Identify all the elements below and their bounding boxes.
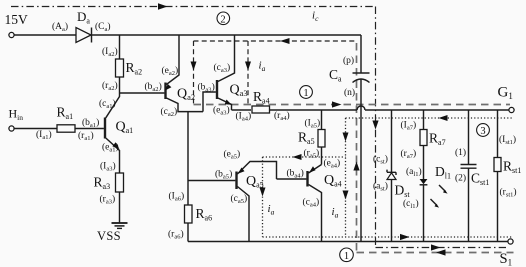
capacitor Ca xyxy=(353,35,370,242)
svg-text:(Aa): (Aa) xyxy=(52,21,68,33)
resistor Ra6 branch xyxy=(185,112,193,242)
terminal 15V input xyxy=(9,32,14,37)
circled number 2 xyxy=(217,12,230,25)
wire top rail left segment xyxy=(14,34,76,36)
resistor Ra7 and LED Dl1 branch xyxy=(420,110,428,242)
wire node Ra2/Qa1 collector to Qa2 base xyxy=(120,92,165,94)
loop 2 dash-dot right edge with down arrow xyxy=(372,7,378,248)
svg-text:1: 1 xyxy=(303,88,308,99)
ground VSS xyxy=(112,223,128,228)
circled number 1 bottom xyxy=(340,248,354,262)
resistor Ra1 xyxy=(57,125,75,132)
capacitor Cst1 branch xyxy=(461,110,477,242)
resistor Ra5 branch xyxy=(318,110,325,165)
diode Da xyxy=(76,28,92,43)
transistor Qa3 xyxy=(217,35,235,110)
loop ia dotted left edge with down arrow xyxy=(260,157,266,237)
terminal S1 xyxy=(508,239,513,244)
svg-text:3: 3 xyxy=(480,126,485,137)
transistor Qa2 xyxy=(165,35,203,112)
wire Ra1 to Qa1 base xyxy=(75,128,104,130)
loop 2 dash-dot bottom edge with right arrow xyxy=(376,244,507,250)
circled number 1 on gate wire xyxy=(300,86,313,99)
svg-text:(n): (n) xyxy=(344,87,355,98)
resistor Ra4 xyxy=(252,106,270,113)
dashed box left edge with down arrow xyxy=(191,41,197,105)
bottom source rail xyxy=(188,241,508,243)
svg-text:VSS: VSS xyxy=(97,229,121,243)
transistor Qa4 xyxy=(277,165,322,242)
svg-text:(Ca): (Ca) xyxy=(95,21,111,33)
svg-text:1: 1 xyxy=(344,251,349,262)
dashed divider edge with down arrow xyxy=(245,41,251,105)
loop 2 dash-dot top edge with right arrow and label ic xyxy=(11,3,376,9)
svg-text:15V: 15V xyxy=(5,12,29,27)
resistor Rst1 branch xyxy=(494,110,501,242)
loop ia dotted top edge with left arrow xyxy=(263,154,346,160)
svg-text:(p): (p) xyxy=(343,55,354,66)
svg-text:(2): (2) xyxy=(455,173,466,184)
loop 1 gray dashed top edge with right arrow xyxy=(194,101,511,107)
LED light emission arrows xyxy=(431,185,448,208)
zener diode Dst branch xyxy=(387,110,396,242)
loop 3 dotted left edge with two down arrows xyxy=(343,118,349,237)
resistor Ra2 xyxy=(116,35,124,93)
transistor Qa1 xyxy=(105,93,120,173)
wire Qa2 collector to Qa3 base xyxy=(203,92,216,112)
loop 1 gray dashed bottom edge with left arrow xyxy=(357,249,514,255)
dashed box top edge with left arrow xyxy=(194,38,358,44)
terminal G1 xyxy=(509,107,514,112)
wire Hin to Ra1 xyxy=(14,128,57,130)
wire top rail main segment xyxy=(92,34,362,36)
loop 1 gray dashed vertical edge with up arrow xyxy=(353,43,359,253)
loop 3 dotted top edge with left arrow xyxy=(346,115,514,121)
main gate wire with hop over Ca lead xyxy=(232,106,510,110)
circled number 3 xyxy=(477,124,490,137)
terminal Hin input xyxy=(9,126,14,131)
resistor Ra3 xyxy=(116,173,124,223)
transistor Qa5 xyxy=(188,162,277,242)
svg-text:2: 2 xyxy=(220,14,225,25)
dotted bottom edge with right arrow xyxy=(263,234,514,240)
svg-text:(1): (1) xyxy=(455,147,466,158)
